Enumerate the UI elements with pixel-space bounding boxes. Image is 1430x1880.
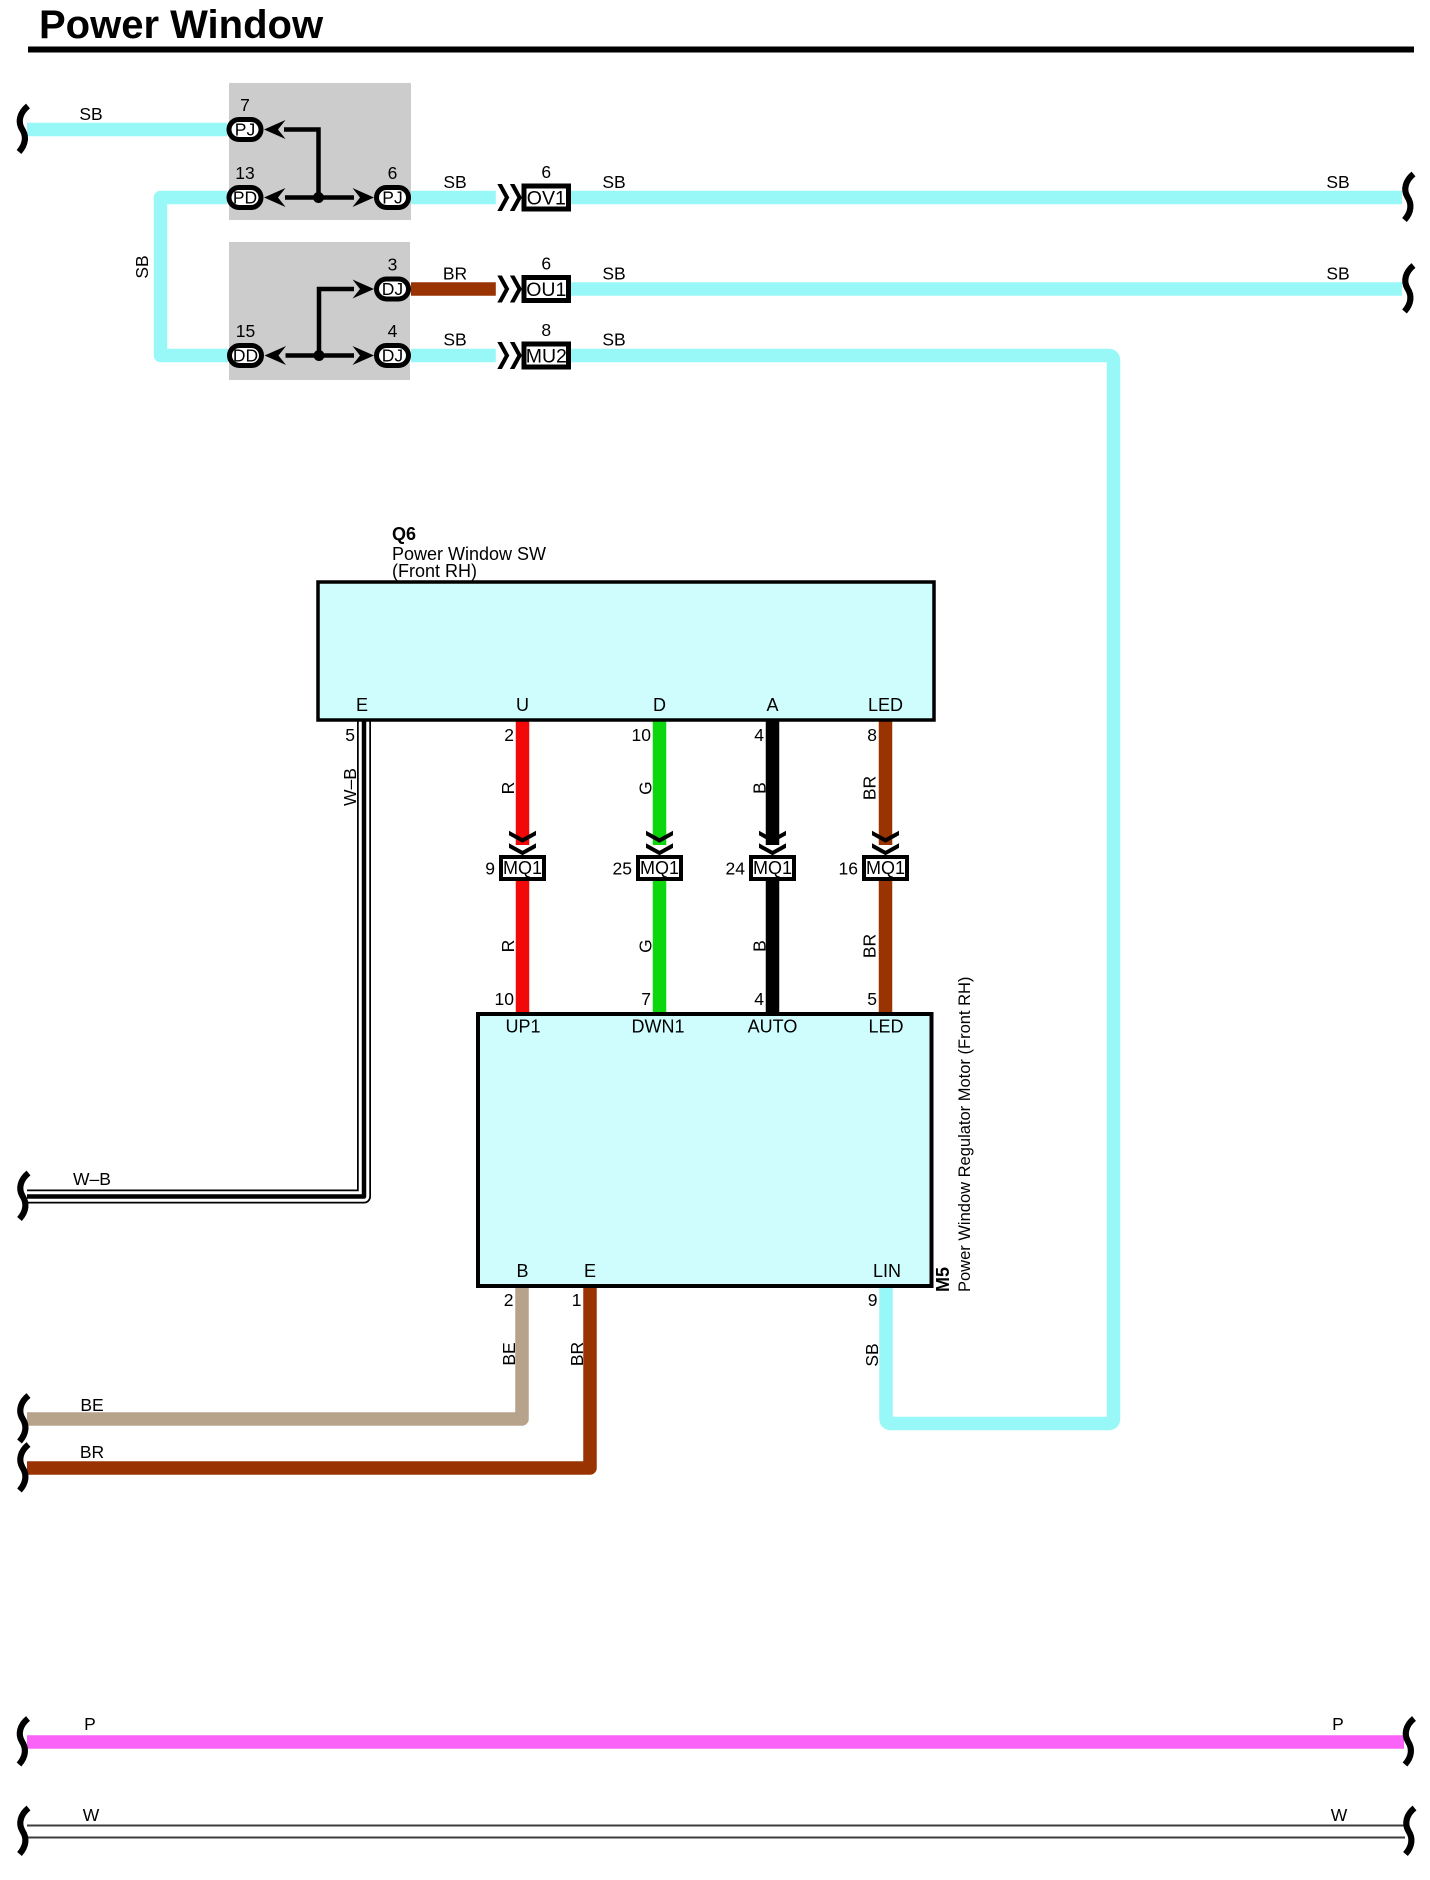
svg-text:LED: LED xyxy=(868,1017,903,1037)
M5 terminal labels bottom xyxy=(516,1261,901,1281)
arrow into DJ pin 4 xyxy=(353,346,375,365)
connector OV1 pin 6 xyxy=(524,162,569,210)
splice wire lower box xyxy=(286,289,355,356)
svg-text:(Front RH): (Front RH) xyxy=(392,561,477,581)
svg-text:4: 4 xyxy=(754,725,764,745)
svg-text:3: 3 xyxy=(388,255,398,275)
svg-text:SB: SB xyxy=(443,330,466,350)
svg-text:6: 6 xyxy=(541,162,551,182)
wire BR from DJ pin 3 to OU1 xyxy=(411,282,496,296)
svg-text:BR: BR xyxy=(443,264,467,284)
chevron arrows before OV1 xyxy=(496,184,524,212)
arrow into PD pin 13 xyxy=(264,188,286,207)
svg-text:BE: BE xyxy=(80,1395,103,1415)
connector MU2 pin 8 xyxy=(524,320,569,368)
splice terminal DD pin 15 xyxy=(230,321,262,366)
wire W across bottom (outer) xyxy=(27,1825,1405,1839)
wire P across bottom xyxy=(27,1735,1404,1749)
labels row OV1 xyxy=(443,172,1349,192)
splice wire upper box xyxy=(284,130,354,198)
junction dot upper box xyxy=(313,192,324,203)
svg-text:PJ: PJ xyxy=(235,120,255,140)
motor M5 Power Window Regulator Motor box xyxy=(478,1014,932,1286)
svg-text:Power Window Regulator Motor (: Power Window Regulator Motor (Front RH) xyxy=(956,977,974,1292)
M5 top pin numbers xyxy=(495,989,877,1009)
wire SB from DJ pin 4 to MU2 xyxy=(411,349,496,363)
svg-text:B: B xyxy=(516,1261,528,1281)
svg-text:W–B: W–B xyxy=(340,768,360,806)
wire BR from M5 E pin 1 to left edge xyxy=(27,1286,590,1468)
wire G from Q6 D pin 10 to M5 DWN1 pin 7 xyxy=(653,720,667,1014)
M5 terminal labels top xyxy=(505,1017,903,1037)
Q6 heading xyxy=(392,524,546,581)
Q6 terminal labels xyxy=(356,695,903,715)
svg-text:9: 9 xyxy=(868,1290,878,1310)
svg-text:OU1: OU1 xyxy=(526,279,566,301)
svg-text:BE: BE xyxy=(499,1342,519,1365)
chevron arrows before MQ1 (16) xyxy=(872,831,899,856)
svg-text:MU2: MU2 xyxy=(526,346,567,368)
wire W-B white core xyxy=(27,720,364,1197)
continuation mark P right xyxy=(1405,1719,1414,1765)
svg-text:8: 8 xyxy=(541,320,551,340)
svg-text:D: D xyxy=(653,695,666,715)
arrow into DJ pin 3 xyxy=(353,280,375,299)
svg-text:SB: SB xyxy=(1326,172,1349,192)
svg-text:9: 9 xyxy=(485,859,495,879)
wire BE from M5 B pin 2 to left edge xyxy=(27,1286,522,1419)
svg-text:MQ1: MQ1 xyxy=(503,858,542,878)
labels row MU2 xyxy=(443,330,625,350)
arrow into DD pin 15 xyxy=(265,346,287,365)
svg-text:5: 5 xyxy=(867,989,877,1009)
wire BR from Q6 LED pin 8 to M5 LED pin 5 xyxy=(879,720,893,1014)
chevron arrows before MQ1 (25) xyxy=(646,831,673,856)
wire B from Q6 A pin 4 to M5 AUTO pin 4 xyxy=(766,720,780,1014)
svg-text:DWN1: DWN1 xyxy=(632,1017,685,1037)
svg-text:SB: SB xyxy=(132,255,152,278)
labels P wire xyxy=(84,1714,1344,1734)
svg-text:PD: PD xyxy=(233,188,257,208)
svg-text:2: 2 xyxy=(504,1290,514,1310)
svg-text:2: 2 xyxy=(504,725,514,745)
svg-text:SB: SB xyxy=(862,1343,882,1366)
wire SB from MU2 around to M5 LIN pin 9 xyxy=(571,356,1114,1424)
splice box upper (PJ/PD) xyxy=(229,83,411,220)
svg-text:E: E xyxy=(356,695,368,715)
chevron arrows before MU2 xyxy=(496,342,524,370)
svg-text:UP1: UP1 xyxy=(505,1017,540,1037)
splice terminal DJ pin 4 xyxy=(377,321,409,366)
connector OU1 pin 6 xyxy=(524,254,569,302)
svg-text:6: 6 xyxy=(388,163,398,183)
svg-text:MQ1: MQ1 xyxy=(753,858,792,878)
svg-text:MQ1: MQ1 xyxy=(866,858,905,878)
splice terminal PD pin 13 xyxy=(229,163,261,208)
svg-text:1: 1 xyxy=(572,1290,582,1310)
wire SB from left edge to splice PJ pin 7 xyxy=(27,123,227,137)
svg-text:SB: SB xyxy=(602,264,625,284)
svg-text:AUTO: AUTO xyxy=(748,1017,798,1037)
svg-text:BR: BR xyxy=(567,1342,587,1366)
svg-text:B: B xyxy=(750,782,770,794)
svg-text:P: P xyxy=(1332,1714,1344,1734)
svg-text:M5: M5 xyxy=(933,1267,953,1292)
wire SB from PJ pin 6 to OV1 xyxy=(411,191,496,205)
connector MQ1 pin 24 xyxy=(726,857,794,879)
svg-text:G: G xyxy=(636,939,656,953)
continuation mark W right xyxy=(1406,1808,1415,1854)
continuation mark SB top left xyxy=(19,106,28,152)
svg-text:R: R xyxy=(498,940,518,953)
arrow into PJ pin 6 xyxy=(353,188,375,207)
svg-text:10: 10 xyxy=(495,989,515,1009)
wire color labels below M5 xyxy=(499,1342,882,1367)
connector MQ1 pin 16 xyxy=(839,857,907,879)
splice terminal DJ pin 3 xyxy=(377,255,409,300)
continuation mark BR left xyxy=(20,1445,29,1491)
svg-text:MQ1: MQ1 xyxy=(640,858,679,878)
svg-text:8: 8 xyxy=(867,725,877,745)
wire R from Q6 U pin 2 to M5 UP1 pin 10 xyxy=(516,720,530,1014)
svg-text:W–B: W–B xyxy=(73,1169,111,1189)
svg-text:R: R xyxy=(498,782,518,795)
svg-text:OV1: OV1 xyxy=(527,188,566,210)
svg-text:4: 4 xyxy=(388,321,398,341)
continuation mark BE left xyxy=(20,1396,29,1442)
wire W-B from Q6 E pin 5 to left edge (outer black) xyxy=(27,720,364,1197)
wire SB from OU1 to right edge xyxy=(571,282,1402,296)
svg-text:U: U xyxy=(516,695,529,715)
svg-text:DJ: DJ xyxy=(382,346,403,366)
arrow into PJ pin 7 xyxy=(264,120,286,139)
svg-text:P: P xyxy=(84,1714,96,1734)
svg-text:5: 5 xyxy=(345,725,355,745)
continuation mark W-B left xyxy=(20,1173,29,1219)
chevron arrows before OU1 xyxy=(496,275,524,303)
wire color labels upper run xyxy=(340,768,880,806)
wire SB loop from PD pin 13 down to DD pin 15 xyxy=(161,198,229,356)
svg-text:BR: BR xyxy=(80,1442,104,1462)
svg-text:SB: SB xyxy=(602,172,625,192)
wire W-B black tracer stripe xyxy=(27,720,364,1197)
svg-text:SB: SB xyxy=(602,330,625,350)
svg-text:7: 7 xyxy=(641,989,651,1009)
svg-text:DJ: DJ xyxy=(382,279,403,299)
svg-text:25: 25 xyxy=(613,859,632,879)
svg-text:SB: SB xyxy=(79,104,102,124)
title underline xyxy=(28,47,1414,53)
junction dot lower box xyxy=(314,350,325,361)
labels W wire xyxy=(83,1805,1348,1825)
svg-text:6: 6 xyxy=(541,254,551,274)
labels row OU1 xyxy=(443,264,1350,284)
svg-text:A: A xyxy=(766,695,778,715)
switch Q6 Power Window SW (Front RH) box xyxy=(318,582,934,720)
svg-text:DD: DD xyxy=(233,346,258,366)
continuation mark W left xyxy=(20,1808,29,1854)
svg-text:SB: SB xyxy=(443,172,466,192)
chevron arrows before MQ1 (24) xyxy=(759,831,786,856)
svg-text:W: W xyxy=(1331,1805,1348,1825)
svg-text:E: E xyxy=(584,1261,596,1281)
splice terminal PJ pin 7 xyxy=(229,95,261,140)
svg-text:G: G xyxy=(636,781,656,795)
M5 bottom pin numbers xyxy=(504,1290,878,1310)
svg-text:PJ: PJ xyxy=(382,188,402,208)
svg-text:16: 16 xyxy=(839,859,858,879)
wire color labels lower run xyxy=(498,934,880,958)
chevron arrows before MQ1 (9) xyxy=(509,831,536,856)
svg-text:BR: BR xyxy=(860,776,880,800)
svg-text:Power Window: Power Window xyxy=(39,3,324,47)
svg-text:7: 7 xyxy=(240,95,250,115)
Q6 pin numbers xyxy=(345,725,877,745)
svg-text:4: 4 xyxy=(754,989,764,1009)
svg-text:Q6: Q6 xyxy=(392,524,416,544)
connector MQ1 pin 9 xyxy=(485,857,544,879)
svg-text:B: B xyxy=(750,940,770,952)
svg-text:LED: LED xyxy=(868,695,903,715)
svg-text:W: W xyxy=(83,1805,100,1825)
continuation mark SB row2 right xyxy=(1405,266,1414,312)
svg-text:LIN: LIN xyxy=(873,1261,901,1281)
svg-text:SB: SB xyxy=(1326,264,1349,284)
connector MQ1 pin 25 xyxy=(613,857,681,879)
splice terminal PJ pin 6 xyxy=(377,163,409,208)
svg-text:BR: BR xyxy=(860,934,880,958)
wire SB from OV1 to right edge xyxy=(571,191,1402,205)
continuation mark P left xyxy=(19,1719,28,1765)
wire W white core xyxy=(27,1827,1405,1837)
svg-text:13: 13 xyxy=(235,163,254,183)
svg-text:10: 10 xyxy=(632,725,652,745)
svg-text:24: 24 xyxy=(726,859,746,879)
continuation mark SB row1 right xyxy=(1405,174,1414,220)
splice box lower (DJ/DD) xyxy=(229,242,410,380)
svg-text:15: 15 xyxy=(236,321,255,341)
